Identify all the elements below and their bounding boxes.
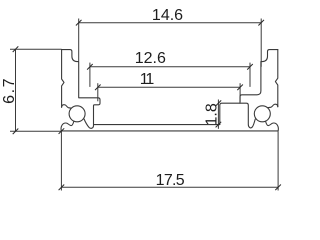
svg-text:1.8: 1.8 [204, 103, 221, 125]
svg-text:6.7: 6.7 [1, 77, 18, 104]
svg-text:14.6: 14.6 [152, 7, 183, 24]
svg-text:12.6: 12.6 [135, 50, 166, 67]
svg-text:11: 11 [140, 71, 155, 88]
svg-text:17.5: 17.5 [156, 172, 185, 189]
